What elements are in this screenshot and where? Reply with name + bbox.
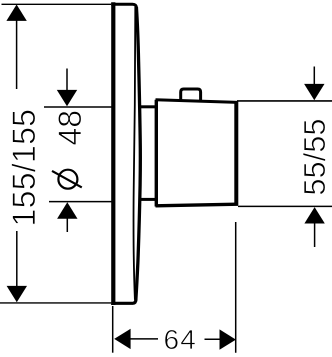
dim line upper segment [16,19,18,89]
handle body (thermostat knob) [156,89,239,207]
dim line right segment [205,338,221,340]
stem top line [141,105,157,108]
arrow down tail [66,69,68,92]
handle top edge [156,100,238,103]
extension line top [2,3,112,5]
plate inner face line [134,7,136,300]
arrowhead left [114,329,130,349]
extension line right [235,222,237,353]
dimension 64 (depth, bottom) [113,222,236,355]
svg-text:64: 64 [164,324,198,355]
svg-text:48: 48 [52,110,88,146]
svg-text:55/55: 55/55 [297,119,332,196]
arrow up (below bottom line) [304,207,324,223]
arrowhead down [7,286,27,302]
plate outer right silhouette [136,7,141,301]
arrow down tail [313,67,315,86]
arrow up tail [66,218,68,233]
diameter symbol slash [52,171,82,188]
extension line top [237,100,332,102]
handle bottom edge [156,204,239,206]
wall plate (escutcheon, side view) [111,2,140,305]
plate bottom edge [111,299,136,303]
plate left edge [111,2,115,305]
arrow down (above top line) [304,84,324,100]
arrow down (above top line) [57,90,77,106]
extension line top [44,106,112,108]
arrow up tail [314,222,316,247]
handle right edge [234,101,238,205]
dimension Ø 48 (plate hub diameter) [44,69,112,233]
dim line left segment [129,338,158,340]
extension line bottom [238,205,332,207]
handle left edge [155,100,158,207]
extension line bottom [49,201,112,203]
dimension 155/155 (overall height, left) [0,4,111,303]
stem bottom line [141,198,157,201]
extension line bottom [0,302,111,304]
grip tab on top of handle [181,89,201,100]
extension line left [112,306,114,353]
plate top edge [111,4,136,8]
svg-text:155/155: 155/155 [6,109,42,227]
arrowhead right [220,329,236,349]
diameter symbol circle [58,170,77,189]
dimension 55/55 (handle depth, right) [237,67,332,248]
arrowhead up [6,5,26,21]
arrow up (below bottom line) [57,202,77,218]
dim line lower segment [16,231,18,288]
valve stem between plate and handle [141,107,157,200]
